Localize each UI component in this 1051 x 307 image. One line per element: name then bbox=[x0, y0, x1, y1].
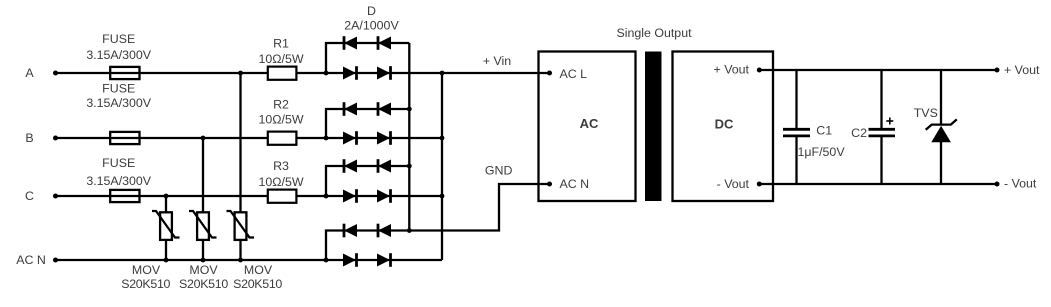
wire phase A bbox=[56, 72, 550, 74]
svg-text:- Vout: - Vout bbox=[1004, 177, 1037, 191]
svg-text:A: A bbox=[25, 66, 34, 80]
junction negative bus / GND bbox=[407, 228, 412, 233]
wire N upper diode branch bbox=[326, 231, 409, 261]
junction MOV3 / phase A bbox=[238, 71, 243, 76]
diode pair B upper (to negative bus) bbox=[344, 102, 391, 116]
svg-text:GND: GND bbox=[485, 164, 513, 178]
junction positive bus / phase C bbox=[440, 194, 445, 199]
svg-text:AC: AC bbox=[580, 116, 599, 131]
wire negative bus bbox=[408, 43, 410, 231]
transformer core bar bbox=[645, 52, 662, 202]
terminal dot B bbox=[53, 136, 58, 141]
DC module box U1 bbox=[673, 52, 774, 202]
svg-text:DC: DC bbox=[715, 117, 734, 132]
wire MOV3 branch bbox=[239, 73, 241, 260]
wire GND trace bbox=[409, 184, 549, 231]
svg-text:D: D bbox=[367, 4, 376, 18]
wire AC N line bbox=[56, 259, 443, 261]
fuse F1 (phase A) bbox=[110, 67, 139, 79]
svg-text:2A/1000V: 2A/1000V bbox=[344, 19, 399, 33]
varistor MOV1 bbox=[152, 211, 180, 240]
fuse F3 (phase C) bbox=[110, 190, 139, 202]
wire positive bus bbox=[441, 73, 443, 260]
junction MOV2 / neutral bbox=[201, 258, 206, 263]
svg-text:R2: R2 bbox=[273, 98, 289, 112]
junction N diode branch bbox=[324, 258, 329, 263]
svg-text:FUSE: FUSE bbox=[102, 32, 135, 46]
svg-text:1μF/50V: 1μF/50V bbox=[798, 145, 846, 159]
diode pair C lower (phase C to positive bus) bbox=[343, 189, 391, 203]
svg-text:3.15A/300V: 3.15A/300V bbox=[86, 48, 151, 62]
junction A diode branch bbox=[324, 71, 329, 76]
svg-text:10Ω/5W: 10Ω/5W bbox=[258, 112, 303, 126]
svg-text:MOV: MOV bbox=[244, 263, 273, 277]
svg-text:MOV: MOV bbox=[132, 263, 161, 277]
C2 polarity plus sign bbox=[886, 118, 893, 125]
svg-text:S20K510: S20K510 bbox=[179, 277, 228, 291]
TVS diode D5 bbox=[926, 70, 957, 184]
junction positive bus / phase B bbox=[440, 136, 445, 141]
svg-text:+ Vout: + Vout bbox=[1004, 63, 1040, 77]
pin AC L bbox=[547, 71, 552, 76]
wire -Vout rail bbox=[759, 183, 997, 185]
svg-text:C1: C1 bbox=[816, 124, 832, 138]
wire phase C bbox=[56, 195, 443, 197]
pin AC N bbox=[547, 182, 552, 187]
junction negative bus / C upper bbox=[407, 164, 412, 169]
svg-text:TVS: TVS bbox=[914, 106, 938, 120]
svg-text:FUSE: FUSE bbox=[102, 156, 135, 170]
svg-text:+ Vin: + Vin bbox=[483, 54, 511, 68]
svg-text:+ Vout: + Vout bbox=[714, 63, 750, 77]
terminal dot AC N bbox=[53, 258, 58, 263]
junction MOV1 / phase C bbox=[164, 194, 169, 199]
diode pair N lower (neutral to positive bus) bbox=[343, 253, 391, 267]
diode pair B lower (phase B to positive bus) bbox=[343, 131, 391, 145]
svg-text:- Vout: - Vout bbox=[717, 177, 750, 191]
junction B diode branch bbox=[324, 136, 329, 141]
wire MOV1 branch bbox=[165, 196, 167, 260]
svg-text:FUSE: FUSE bbox=[102, 82, 135, 96]
svg-text:AC N: AC N bbox=[16, 253, 46, 267]
resistor R1 bbox=[268, 67, 297, 80]
wire phase B bbox=[56, 137, 443, 139]
varistor MOV3 bbox=[227, 211, 255, 240]
svg-text:3.15A/300V: 3.15A/300V bbox=[86, 96, 151, 110]
svg-text:Single Output: Single Output bbox=[616, 26, 692, 40]
terminal dot -Vout bbox=[995, 182, 1000, 187]
diode pair C upper (to negative bus) bbox=[344, 159, 391, 173]
wire +Vout rail bbox=[759, 69, 997, 71]
diode pair N upper (to negative bus) bbox=[344, 224, 391, 238]
resistor R3 bbox=[268, 190, 297, 203]
resistor R2 bbox=[268, 132, 297, 145]
junction MOV1 / neutral bbox=[164, 258, 169, 263]
terminal dot +Vout bbox=[995, 68, 1000, 73]
AC module box U1 bbox=[539, 52, 636, 202]
svg-text:R3: R3 bbox=[273, 159, 289, 173]
svg-text:S20K510: S20K510 bbox=[121, 277, 170, 291]
svg-text:MOV: MOV bbox=[189, 263, 218, 277]
svg-text:AC L: AC L bbox=[560, 67, 588, 81]
svg-text:C2: C2 bbox=[851, 126, 867, 140]
diode pair A lower (phase A to positive bus) bbox=[343, 66, 391, 80]
svg-text:C: C bbox=[25, 189, 34, 203]
svg-text:10Ω/5W: 10Ω/5W bbox=[258, 52, 303, 66]
junction negative bus / B upper bbox=[407, 107, 412, 112]
pin -Vout module bbox=[757, 182, 762, 187]
junction positive bus / phase A bbox=[440, 71, 445, 76]
diode pair A upper (to negative bus) bbox=[344, 36, 391, 50]
wire A upper diode branch bbox=[326, 43, 409, 73]
capacitor C2 bbox=[869, 70, 896, 184]
terminal dot A bbox=[53, 71, 58, 76]
wire MOV2 branch bbox=[202, 138, 204, 260]
svg-text:S20K510: S20K510 bbox=[233, 277, 282, 291]
junction MOV3 / neutral bbox=[238, 258, 243, 263]
svg-text:B: B bbox=[25, 131, 33, 145]
varistor MOV2 bbox=[189, 211, 217, 240]
fuse F2 (phase B) bbox=[110, 132, 139, 144]
svg-text:10Ω/5W: 10Ω/5W bbox=[258, 175, 303, 189]
svg-text:AC N: AC N bbox=[560, 177, 590, 191]
pin +Vout module bbox=[757, 68, 762, 73]
capacitor C1 bbox=[783, 70, 810, 184]
terminal dot C bbox=[53, 194, 58, 199]
wire B upper diode branch bbox=[326, 109, 409, 138]
junction C diode branch bbox=[324, 194, 329, 199]
junction MOV2 / phase B bbox=[201, 136, 206, 141]
svg-text:R1: R1 bbox=[273, 37, 289, 51]
wire C upper diode branch bbox=[326, 166, 409, 196]
svg-text:3.15A/300V: 3.15A/300V bbox=[86, 174, 151, 188]
